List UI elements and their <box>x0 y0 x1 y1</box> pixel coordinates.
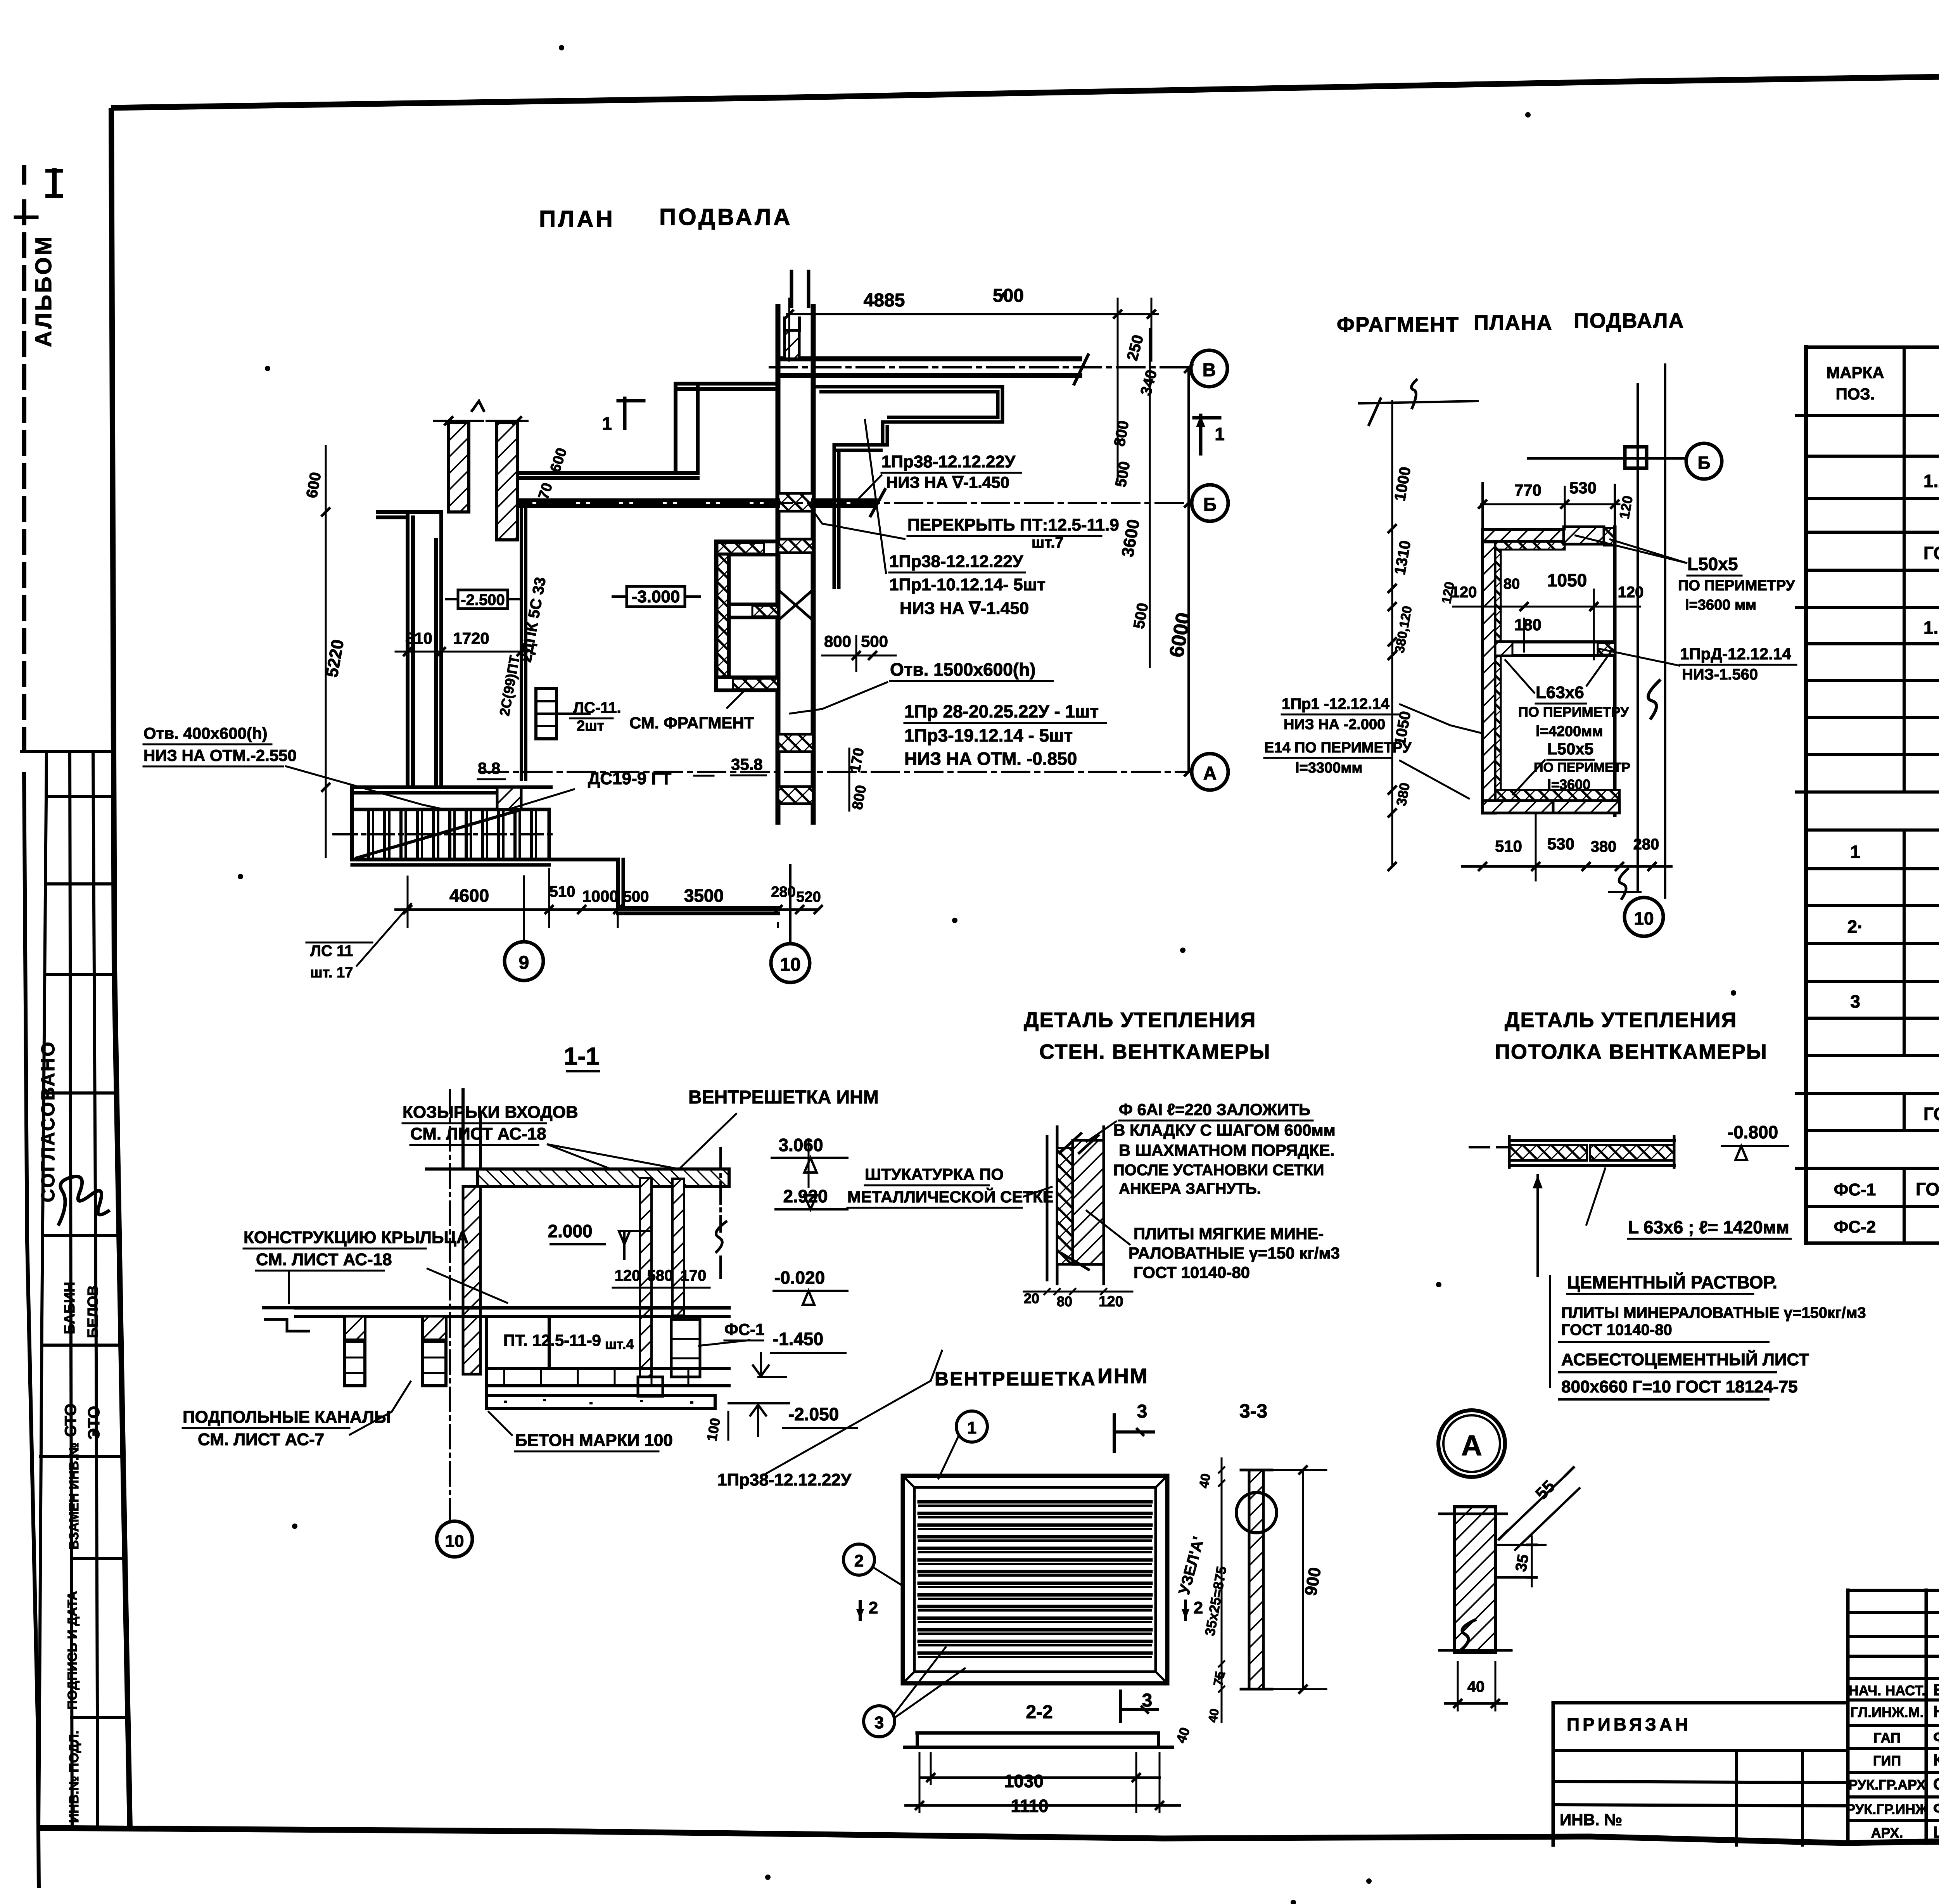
wall W2 <box>517 471 698 475</box>
узел А circle on 3-3 <box>1236 1492 1277 1533</box>
svg-text:РУК.ГР.АРХ: РУК.ГР.АРХ <box>1848 1777 1926 1793</box>
svg-text:500: 500 <box>623 888 649 905</box>
axis-10 wall verticals <box>776 306 781 822</box>
svg-text:ДЕТАЛЬ УТЕПЛЕНИЯ: ДЕТАЛЬ УТЕПЛЕНИЯ <box>1505 1008 1737 1032</box>
svg-text:ФС-1: ФС-1 <box>1834 1180 1876 1199</box>
roof slab <box>478 1169 729 1186</box>
middle partition <box>1495 640 1615 643</box>
dashed diagonals in frame corners <box>903 1476 914 1487</box>
svg-text:МЕТАЛЛИЧЕСКОЙ СЕТКЕ: МЕТАЛЛИЧЕСКОЙ СЕТКЕ <box>847 1187 1054 1206</box>
wall break mark top right <box>1074 355 1088 384</box>
svg-text:СТО: СТО <box>61 1403 79 1437</box>
svg-text:ФРЕЙМАН: ФРЕЙМАН <box>1933 1799 1939 1818</box>
svg-text:80: 80 <box>1504 576 1520 592</box>
callout circle 2 <box>843 1544 874 1575</box>
svg-text:ДЕТАЛЬ УТЕПЛЕНИЯ: ДЕТАЛЬ УТЕПЛЕНИЯ <box>1024 1008 1256 1032</box>
svg-text:ИНВ.№ ПОДЛ.: ИНВ.№ ПОДЛ. <box>67 1731 81 1823</box>
grid circle Б fragment <box>1686 443 1722 479</box>
svg-text:ГАП: ГАП <box>1873 1730 1901 1746</box>
ceiling bar <box>1470 1146 1509 1148</box>
svg-text:ВЕНТРЕШЕТКА ИНМ: ВЕНТРЕШЕТКА ИНМ <box>688 1087 879 1108</box>
axis A dash-dot <box>481 771 1189 773</box>
svg-text:40: 40 <box>1196 1472 1213 1489</box>
svg-text:800х660 Г=10 ГОСТ 18124-75: 800х660 Г=10 ГОСТ 18124-75 <box>1561 1377 1798 1396</box>
svg-text:10: 10 <box>445 1532 464 1551</box>
svg-text:БЕТОН МАРКИ 100: БЕТОН МАРКИ 100 <box>515 1431 673 1450</box>
svg-text:L 63х6 ; ℓ= 1420мм: L 63х6 ; ℓ= 1420мм <box>1628 1217 1789 1237</box>
axis-10 wall junction hatches <box>778 493 813 511</box>
svg-text:2: 2 <box>869 1598 878 1617</box>
svg-text:ПТ. 12.5-11-9: ПТ. 12.5-11-9 <box>503 1331 601 1349</box>
svg-text:ПОСЛЕ УСТАНОВКИ СЕТКИ: ПОСЛЕ УСТАНОВКИ СЕТКИ <box>1113 1162 1324 1179</box>
axis-10 grid verticals fragment <box>1637 384 1639 892</box>
thin partition x1344 <box>520 503 523 780</box>
hatched landing block <box>497 787 521 809</box>
svg-text:800: 800 <box>824 632 851 650</box>
svg-text:ПОЗ.: ПОЗ. <box>1836 385 1875 403</box>
svg-text:А: А <box>1461 1429 1482 1461</box>
right dim column <box>1149 329 1151 667</box>
svg-text:500: 500 <box>993 285 1024 306</box>
leader arrow up <box>1536 1175 1539 1276</box>
grid circle 10 (plan) <box>771 944 810 982</box>
svg-text:ПОДВАЛА: ПОДВАЛА <box>659 204 793 230</box>
svg-text:ШТУКАТУРКА ПО: ШТУКАТУРКА ПО <box>865 1165 1004 1183</box>
svg-text:l=3300мм: l=3300мм <box>1295 760 1363 776</box>
svg-text:810: 810 <box>405 629 432 647</box>
svg-text:А: А <box>1203 763 1217 784</box>
svg-text:1030: 1030 <box>1004 1771 1044 1791</box>
stacked labels <box>1549 1276 1551 1387</box>
svg-text:ПОДПИСЬ И ДАТА: ПОДПИСЬ И ДАТА <box>65 1591 80 1710</box>
left room walls <box>378 510 441 514</box>
svg-text:L63х6: L63х6 <box>1536 683 1584 702</box>
svg-text:8.8: 8.8 <box>478 759 500 777</box>
svg-text:280: 280 <box>1633 836 1659 853</box>
svg-text:Отв. 400х600(h): Отв. 400х600(h) <box>143 724 268 742</box>
sheet frame <box>111 68 1939 108</box>
svg-text:1.243.1-4: 1.243.1-4 <box>1923 471 1939 491</box>
svg-text:Отв. 1500х600(h): Отв. 1500х600(h) <box>890 659 1036 680</box>
svg-text:шт. 17: шт. 17 <box>310 965 353 981</box>
svg-text:ГОСТ 24698 - 81: ГОСТ 24698 - 81 <box>1923 1104 1939 1124</box>
svg-text:ГОСТ 8717-81: ГОСТ 8717-81 <box>1923 543 1939 563</box>
title block: signature table <box>1848 1589 1939 1592</box>
axis square marker <box>1625 447 1647 468</box>
svg-text:-2.050: -2.050 <box>788 1404 839 1424</box>
left wall hatched <box>463 1186 480 1374</box>
right wall line <box>1613 527 1617 815</box>
node A circle <box>1438 1410 1505 1477</box>
svg-text:Б: Б <box>1203 495 1217 515</box>
level boxes <box>458 590 508 609</box>
svg-text:ПЕРЕКРЫТЬ ПТ:12.5-11.9: ПЕРЕКРЫТЬ ПТ:12.5-11.9 <box>907 515 1119 534</box>
svg-text:1Пр38-12.12.22У: 1Пр38-12.12.22У <box>889 552 1023 571</box>
svg-text:1Пр3-19.12.14 - 5шт: 1Пр3-19.12.14 - 5шт <box>904 725 1073 745</box>
south wall <box>618 906 778 910</box>
svg-text:120: 120 <box>615 1267 641 1284</box>
top wall right piece <box>1564 527 1604 544</box>
section mark 1 top-left <box>623 398 627 428</box>
svg-text:-0.020: -0.020 <box>774 1268 825 1288</box>
top dimension line 4885/500 <box>787 313 1158 315</box>
svg-text:3: 3 <box>1850 991 1860 1012</box>
svg-text:80: 80 <box>1057 1294 1072 1309</box>
hatched piers top-left <box>449 423 469 512</box>
svg-text:НАЗАРОВ: НАЗАРОВ <box>1933 1702 1939 1721</box>
svg-text:l=3600: l=3600 <box>1547 776 1590 792</box>
svg-text:Б: Б <box>1697 453 1710 473</box>
svg-text:ПОДВАЛА: ПОДВАЛА <box>1574 309 1684 332</box>
canopy left piece <box>427 1167 478 1171</box>
svg-text:СТЕН. ВЕНТКАМЕРЫ: СТЕН. ВЕНТКАМЕРЫ <box>1039 1040 1271 1064</box>
svg-text:1: 1 <box>602 413 612 434</box>
stair left wall <box>350 787 354 859</box>
svg-text:НИЗ НА ОТМ. -0.850: НИЗ НА ОТМ. -0.850 <box>904 749 1077 769</box>
svg-text:СМ. ФРАГМЕНТ: СМ. ФРАГМЕНТ <box>629 714 754 732</box>
svg-text:Е14 ПО ПЕРИМЕТРУ: Е14 ПО ПЕРИМЕТРУ <box>1264 740 1412 756</box>
svg-text:ПЛАНА: ПЛАНА <box>1474 311 1553 334</box>
ФС-1 block column under shaft right wall <box>671 1319 700 1377</box>
svg-text:СМ. ЛИСТ АС-18: СМ. ЛИСТ АС-18 <box>256 1250 392 1269</box>
bottom concrete slab <box>486 1396 715 1409</box>
dims 1030 / 1110 <box>921 1776 1160 1779</box>
svg-text:НИЗ-1.560: НИЗ-1.560 <box>1682 666 1758 683</box>
svg-text:10: 10 <box>1634 908 1654 929</box>
fragment shaft outer walls <box>1483 529 1495 813</box>
svg-text:БЕЛОВ: БЕЛОВ <box>85 1285 101 1338</box>
svg-text:ПОТОЛКА ВЕНТКАМЕРЫ: ПОТОЛКА ВЕНТКАМЕРЫ <box>1495 1040 1768 1064</box>
svg-text:ГОСТ 13579-78: ГОСТ 13579-78 <box>1916 1179 1939 1199</box>
svg-text:1Пр1 -12.12.14: 1Пр1 -12.12.14 <box>1282 695 1390 712</box>
section mark 1 right <box>1199 415 1203 454</box>
svg-text:ШИШКОВА: ШИШКОВА <box>1933 1823 1939 1841</box>
svg-text:ПО ПЕРИМЕТРУ: ПО ПЕРИМЕТРУ <box>1678 578 1795 594</box>
svg-text:ЛС-11.: ЛС-11. <box>573 699 621 716</box>
svg-text:ИНМ: ИНМ <box>1097 1364 1149 1388</box>
axis dash-dot vertical (10) <box>449 1090 451 1520</box>
svg-text:В КЛАДКУ С ШАГОМ 600мм: В КЛАДКУ С ШАГОМ 600мм <box>1113 1121 1336 1139</box>
2-2 side bar <box>917 1731 1158 1735</box>
svg-text:В: В <box>1203 360 1216 380</box>
svg-text:40: 40 <box>1205 1707 1222 1723</box>
axis B(б) wall <box>517 498 778 502</box>
svg-text:ИНВ. №: ИНВ. № <box>1560 1811 1622 1829</box>
svg-text:1720: 1720 <box>453 629 489 647</box>
svg-text:1000: 1000 <box>582 887 618 905</box>
svg-text:шт.4: шт.4 <box>605 1336 634 1352</box>
svg-text:ГОСТ 10140-80: ГОСТ 10140-80 <box>1134 1263 1250 1281</box>
grid circle A <box>1192 754 1228 790</box>
svg-text:-2.500: -2.500 <box>461 591 505 609</box>
svg-text:2: 2 <box>1194 1598 1203 1617</box>
callout circle 3 <box>864 1706 895 1737</box>
pier above top wall <box>785 330 799 359</box>
svg-text:2шт: 2шт <box>577 718 604 734</box>
svg-text:L50х5: L50х5 <box>1687 554 1738 574</box>
circle 10 (section) <box>437 1521 472 1557</box>
fragment top dims 770/530 <box>1481 503 1619 505</box>
svg-text:НИЗ НА -2.000: НИЗ НА -2.000 <box>1284 716 1385 733</box>
svg-text:1050: 1050 <box>1547 570 1587 590</box>
svg-text:РАЛОВАТНЫЕ γ=150 кг/м3: РАЛОВАТНЫЕ γ=150 кг/м3 <box>1128 1244 1340 1262</box>
stair landing lines <box>352 858 618 861</box>
svg-text:ПО ПЕРИМЕТР: ПО ПЕРИМЕТР <box>1534 760 1630 775</box>
svg-text:ВЕНТРЕШЕТКА: ВЕНТРЕШЕТКА <box>935 1368 1096 1390</box>
svg-text:1Пр1-10.12.14- 5шт: 1Пр1-10.12.14- 5шт <box>889 575 1046 594</box>
svg-text:120: 120 <box>1099 1294 1123 1310</box>
svg-text:3.060: 3.060 <box>778 1135 823 1155</box>
svg-text:ФС-2: ФС-2 <box>1834 1217 1876 1236</box>
grid circle B <box>1191 350 1227 387</box>
louver lines <box>919 1500 1151 1504</box>
svg-text:380: 380 <box>1591 838 1617 855</box>
wall above roof <box>461 1090 465 1169</box>
left stamp column rows <box>21 750 113 753</box>
svg-text:580: 580 <box>647 1267 673 1284</box>
svg-text:3-3: 3-3 <box>1239 1400 1267 1422</box>
stair <box>352 809 549 859</box>
walls below <box>548 1316 551 1369</box>
binding margin line <box>22 168 26 182</box>
svg-text:СМ. ЛИСТ АС-7: СМ. ЛИСТ АС-7 <box>198 1430 324 1449</box>
fragment shaft extension lines <box>1481 483 1484 529</box>
grille outer frame <box>903 1476 1167 1683</box>
svg-text:АСБЕСТОЦЕМЕНТНЫЙ ЛИСТ: АСБЕСТОЦЕМЕНТНЫЙ ЛИСТ <box>1561 1349 1809 1369</box>
svg-text:40: 40 <box>1467 1678 1485 1695</box>
bottom wall <box>1495 790 1619 804</box>
foundation columns <box>345 1316 365 1386</box>
svg-text:4600: 4600 <box>449 885 489 906</box>
svg-text:-0.800: -0.800 <box>1728 1122 1778 1142</box>
svg-text:шт.7: шт.7 <box>1032 534 1064 551</box>
svg-text:1: 1 <box>967 1418 976 1437</box>
svg-text:ЦЕМЕНТНЫЙ РАСТВОР.: ЦЕМЕНТНЫЙ РАСТВОР. <box>1567 1272 1777 1292</box>
fragment top dim line with break <box>1359 401 1478 403</box>
signature scribble left <box>58 1176 110 1226</box>
svg-text:Ф 6АI ℓ=220 ЗАЛОЖИТЬ: Ф 6АI ℓ=220 ЗАЛОЖИТЬ <box>1119 1100 1310 1119</box>
node A dims <box>1501 1474 1567 1537</box>
svg-text:2: 2 <box>854 1551 864 1570</box>
svg-text:9: 9 <box>519 953 529 973</box>
ЛС-11 element box <box>536 688 556 739</box>
lower floor slab (Пт) <box>486 1367 729 1370</box>
svg-text:3: 3 <box>1137 1401 1148 1422</box>
floor slab -0.020 <box>296 1306 729 1310</box>
svg-text:НИЗ НА ∇-1.450: НИЗ НА ∇-1.450 <box>900 599 1029 618</box>
svg-text:-1.450: -1.450 <box>773 1329 823 1349</box>
fragment bottom dims <box>1462 865 1671 868</box>
svg-text:20: 20 <box>1024 1290 1039 1306</box>
wall detail section <box>1046 1136 1049 1280</box>
fragment inner dims <box>1453 606 1640 608</box>
insulation strips <box>1495 542 1565 550</box>
svg-text:530: 530 <box>1547 835 1574 853</box>
svg-text:НАЧ. НАСТ.: НАЧ. НАСТ. <box>1849 1683 1926 1698</box>
svg-text:280: 280 <box>771 884 795 900</box>
svg-text:3500: 3500 <box>684 885 724 906</box>
grid circle Б <box>1192 485 1228 521</box>
top wall axis B <box>778 356 1080 361</box>
svg-text:БАБИН: БАБИН <box>62 1282 78 1334</box>
svg-text:510: 510 <box>1495 837 1522 855</box>
vent room C-shape <box>716 540 778 543</box>
svg-text:L50х5: L50х5 <box>1547 740 1593 758</box>
svg-text:КОЗЫРЬКИ ВХОДОВ: КОЗЫРЬКИ ВХОДОВ <box>403 1103 578 1122</box>
svg-text:ФРАГМЕНТ: ФРАГМЕНТ <box>1337 313 1459 336</box>
svg-text:НИЗ НА ОТМ.-2.550: НИЗ НА ОТМ.-2.550 <box>143 746 297 764</box>
blocks under left shaft wall <box>638 1377 663 1396</box>
svg-text:-3.000: -3.000 <box>632 587 680 606</box>
svg-text:1Пр 28-20.25.22У - 1шт: 1Пр 28-20.25.22У - 1шт <box>904 701 1099 721</box>
svg-text:СМ. ЛИСТ АС-18: СМ. ЛИСТ АС-18 <box>410 1124 546 1143</box>
svg-text:1Пр38-12.12.22У: 1Пр38-12.12.22У <box>717 1470 852 1489</box>
svg-text:В ШАХМАТНОМ ПОРЯДКЕ.: В ШАХМАТНОМ ПОРЯДКЕ. <box>1119 1141 1334 1159</box>
svg-text:КОНСТРУКЦИЮ КРЫЛЬЦА: КОНСТРУКЦИЮ КРЫЛЬЦА <box>244 1228 468 1247</box>
svg-text:l=3600 мм: l=3600 мм <box>1685 597 1756 613</box>
svg-text:2·: 2· <box>1847 917 1863 937</box>
svg-text:ПОДПОЛЬНЫЕ КАНАЛЫ: ПОДПОЛЬНЫЕ КАНАЛЫ <box>183 1408 391 1427</box>
svg-text:510: 510 <box>550 883 575 900</box>
svg-text:ФС-1: ФС-1 <box>724 1320 765 1339</box>
svg-text:ГОСТ 10140-80: ГОСТ 10140-80 <box>1561 1321 1672 1339</box>
svg-text:1: 1 <box>1215 424 1225 444</box>
left part: ПРИВЯЗАН box <box>1553 1701 1848 1705</box>
svg-text:3: 3 <box>874 1713 884 1732</box>
svg-text:2.000: 2.000 <box>548 1221 592 1241</box>
svg-text:ВЗАМЕН ИНВ.№: ВЗАМЕН ИНВ.№ <box>67 1442 81 1549</box>
svg-text:ЛС 11: ЛС 11 <box>310 942 353 960</box>
svg-text:1-1: 1-1 <box>564 1042 600 1070</box>
stray specks <box>559 45 564 50</box>
grid circle 9 <box>505 942 543 981</box>
svg-text:ПРИВЯЗАН: ПРИВЯЗАН <box>1567 1714 1691 1735</box>
door leaf marks on axis-10 wall <box>778 590 813 621</box>
shaft walls (section) <box>640 1178 652 1377</box>
svg-text:СОГЛАСОВАНО: СОГЛАСОВАНО <box>38 1040 59 1202</box>
svg-text:l=4200мм: l=4200мм <box>1536 723 1603 740</box>
svg-text:ПЛИТЫ МИНЕРАЛОВАТНЫЕ γ=150кг/м: ПЛИТЫ МИНЕРАЛОВАТНЫЕ γ=150кг/м3 <box>1561 1304 1866 1321</box>
svg-text:ПЛАН: ПЛАН <box>539 206 615 232</box>
svg-text:120: 120 <box>1451 584 1477 601</box>
svg-text:2-2: 2-2 <box>1026 1702 1052 1722</box>
svg-text:770: 770 <box>1514 481 1542 499</box>
fragment vertical dim column <box>1391 401 1393 866</box>
svg-text:500: 500 <box>861 632 888 650</box>
svg-text:1Пр38-12.12.22У: 1Пр38-12.12.22У <box>881 452 1016 471</box>
svg-text:ДС19-9 ГТ: ДС19-9 ГТ <box>588 769 671 788</box>
svg-text:ФИЛИППОВ: ФИЛИППОВ <box>1933 1728 1939 1746</box>
svg-text:120: 120 <box>1618 584 1644 601</box>
svg-text:1: 1 <box>1850 842 1860 862</box>
svg-text:АРХ.: АРХ. <box>1871 1825 1903 1841</box>
svg-text:1110: 1110 <box>1011 1796 1048 1816</box>
svg-text:РУК.ГР.ИНЖ: РУК.ГР.ИНЖ <box>1846 1801 1928 1817</box>
inner partition loop <box>815 385 1002 389</box>
svg-text:35: 35 <box>1512 1553 1532 1573</box>
svg-text:МАРКА: МАРКА <box>1826 363 1884 382</box>
fragment circle 10 <box>1624 898 1663 936</box>
svg-text:ПЛИТЫ МЯГКИЕ МИНЕ-: ПЛИТЫ МЯГКИЕ МИНЕ- <box>1134 1224 1324 1243</box>
left stamp column verticals <box>39 751 47 1828</box>
svg-text:4885: 4885 <box>864 290 905 311</box>
svg-text:180: 180 <box>1514 616 1542 634</box>
svg-text:АЛЬБОМ: АЛЬБОМ <box>31 235 56 347</box>
node A bar <box>1454 1507 1495 1653</box>
svg-text:1ПрД-12.12.14: 1ПрД-12.12.14 <box>1680 645 1791 663</box>
svg-text:1.138-10 ВЫП.1: 1.138-10 ВЫП.1 <box>1923 617 1939 638</box>
bottom dimension line <box>396 908 818 911</box>
svg-text:НИЗ НА ∇-1.450: НИЗ НА ∇-1.450 <box>886 473 1009 491</box>
svg-text:ГИП: ГИП <box>1873 1753 1901 1769</box>
svg-text:ПО ПЕРИМЕТРУ: ПО ПЕРИМЕТРУ <box>1518 704 1629 720</box>
anchors <box>1059 1133 1099 1154</box>
svg-text:ВАЩЕНКОВ: ВАЩЕНКОВ <box>1933 1681 1939 1699</box>
porch steps left <box>264 1306 296 1309</box>
svg-text:530: 530 <box>1569 479 1597 497</box>
svg-text:ГЛ.ИНЖ.М.: ГЛ.ИНЖ.М. <box>1850 1704 1923 1720</box>
callout circle 1 <box>956 1411 987 1442</box>
svg-text:520: 520 <box>796 889 821 905</box>
svg-text:АНКЕРА ЗАГНУТЬ.: АНКЕРА ЗАГНУТЬ. <box>1119 1180 1261 1197</box>
svg-text:КИРЮШКИН: КИРЮШКИН <box>1933 1751 1939 1769</box>
svg-text:35.8: 35.8 <box>731 755 763 773</box>
corridor walls top center <box>674 384 677 473</box>
svg-text:10: 10 <box>780 955 800 975</box>
svg-text:ЭТО: ЭТО <box>85 1406 103 1440</box>
specification table grid <box>1806 346 1939 349</box>
svg-text:СОКОЛОВА: СОКОЛОВА <box>1933 1775 1939 1793</box>
section right axis dash-dot with break <box>719 1148 722 1231</box>
3-3 dims <box>1221 1458 1223 1722</box>
